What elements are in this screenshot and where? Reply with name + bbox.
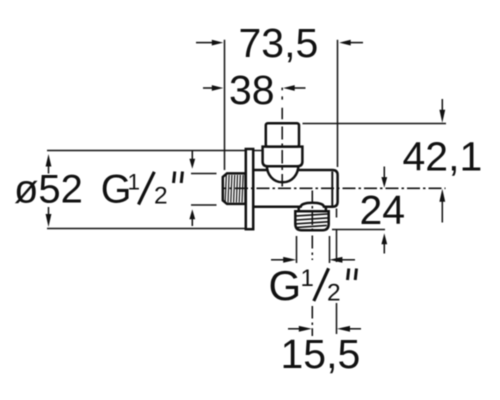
wall flange xyxy=(246,149,253,229)
extension line ext-735-right xyxy=(337,40,339,167)
centerline horizontal axis xyxy=(222,187,446,189)
valve body xyxy=(253,170,338,207)
arrow 24-up xyxy=(381,233,387,253)
dimension 38 right arrow xyxy=(283,85,305,91)
svg-text:ø52: ø52 xyxy=(14,168,83,212)
extension line ext-inletG12-top xyxy=(191,173,217,175)
outlet thread lines xyxy=(297,214,328,228)
arrow 421-down xyxy=(439,99,445,123)
extension line ext-735-left xyxy=(224,40,226,170)
svg-text:1: 1 xyxy=(128,170,141,195)
dimension 73,5 left arrow xyxy=(196,40,223,46)
svg-text:42,1: 42,1 xyxy=(403,134,483,180)
bonnet dome xyxy=(267,166,299,183)
arrow inletG12-down xyxy=(189,151,195,169)
svg-text:2: 2 xyxy=(154,183,168,210)
outlet nut xyxy=(295,211,328,230)
dimension 73,5 right arrow xyxy=(339,40,363,46)
extension line ext-outletG12-right xyxy=(329,236,331,263)
svg-text:1: 1 xyxy=(301,265,314,292)
label bottom fraction slash xyxy=(314,268,329,301)
extension line ext-outletG12-left xyxy=(296,236,298,263)
extension line ext-dia52-bottom xyxy=(47,228,245,230)
svg-text:24: 24 xyxy=(360,187,406,233)
svg-text:38: 38 xyxy=(229,67,275,113)
arrow dia52-up xyxy=(46,154,52,174)
extension line ext-155-right upper (below 24 line) xyxy=(336,229,338,262)
label bottom inch ticks xyxy=(348,269,357,281)
extension line ext-421-top xyxy=(303,123,447,125)
dimension outlet G1/2 right arrow xyxy=(329,257,355,263)
stem shoulder xyxy=(263,147,303,167)
extension line ext-inletG12-bottom xyxy=(191,204,217,206)
dimension 38 left arrow xyxy=(203,85,223,91)
label left inch ticks xyxy=(174,172,183,184)
label left fraction slash xyxy=(139,172,155,205)
outlet dome xyxy=(299,203,326,212)
svg-text:G: G xyxy=(269,262,302,309)
svg-text:73,5: 73,5 xyxy=(239,20,319,66)
valve inlet thread (hatched) xyxy=(223,173,246,204)
centerline outlet axis lower xyxy=(311,306,313,336)
centerline outlet axis upper xyxy=(311,191,313,261)
extension line ext-24-bottom (outlet bottom) xyxy=(332,229,385,231)
arrow 24-down xyxy=(381,167,387,188)
centerline stem axis xyxy=(281,88,283,187)
dimension 15,5 left arrow xyxy=(288,326,312,332)
extension line ext-155-right lower xyxy=(336,303,338,334)
dimension outlet G1/2 left arrow xyxy=(271,257,296,263)
valve body end face line xyxy=(331,172,333,206)
svg-text:15,5: 15,5 xyxy=(281,331,361,377)
arrow dia52-down xyxy=(46,207,52,227)
dimension 15,5 right arrow xyxy=(337,326,361,332)
extension line ext-155-right upper (from body corner) xyxy=(336,209,338,218)
arrow inletG12-up xyxy=(189,209,195,226)
extension line ext-dia52-top xyxy=(47,150,262,152)
svg-text:2: 2 xyxy=(327,280,341,307)
stem head xyxy=(266,123,299,146)
arrow 421-up xyxy=(439,189,445,223)
